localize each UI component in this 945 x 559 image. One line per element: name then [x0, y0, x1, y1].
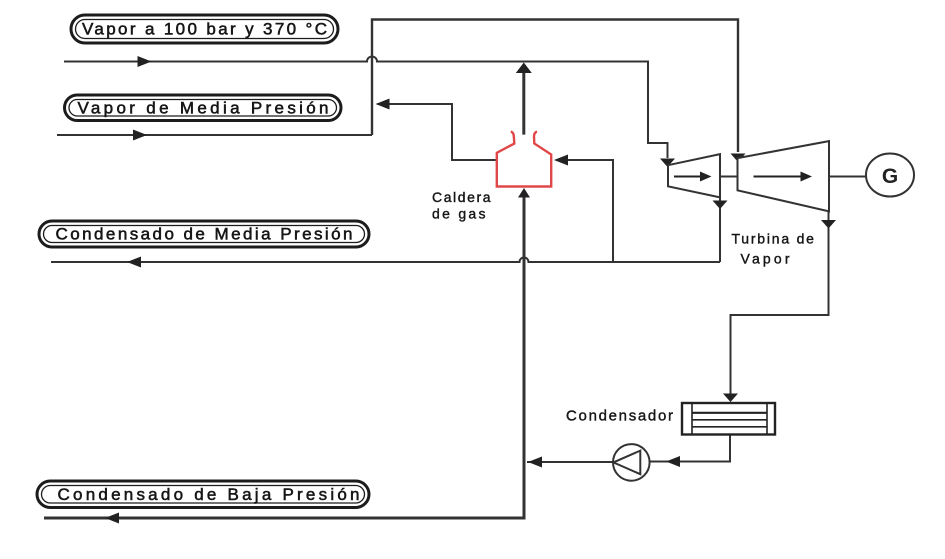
big turbine — [738, 141, 830, 211]
arrow inside small turbine — [674, 172, 712, 182]
wire F1: 100-bar steam line with hop over vertical riser — [64, 57, 668, 159]
arrow into small turbine inlet pointing down — [660, 159, 675, 168]
generator G — [866, 154, 914, 197]
text Caldera de gas — [432, 189, 491, 222]
wire big turbine exhaust to condenser — [731, 211, 829, 399]
svg-text:G: G — [882, 165, 898, 188]
wire VertD: boiler feed / condensate main vertical — [523, 197, 526, 517]
arrow into riser pointing left — [376, 99, 390, 110]
wire F2: medium pressure steam inlet — [57, 134, 372, 136]
wire F3: condensado de media presion run with hop over VertD — [51, 258, 720, 263]
arrow on F1 pointing right — [138, 56, 152, 67]
label oval L4: Condensado de Baja Presion — [37, 481, 369, 508]
wire boiler steam outlet to riser — [378, 104, 497, 160]
svg-text:Condensado de Media Presión: Condensado de Media Presión — [56, 225, 353, 244]
arrow pointing down into condenser — [723, 394, 738, 403]
svg-text:Turbina de: Turbina de — [731, 231, 814, 247]
arrow up into boiler bottom — [518, 188, 530, 198]
boiler (red) Caldera de gas — [497, 132, 551, 187]
text Condensador — [566, 408, 673, 425]
wire condenser outlet to pump — [650, 435, 730, 462]
pump — [613, 444, 650, 481]
wire boiler right-side feed from F3 — [556, 160, 613, 262]
wire pump discharge to VertD — [527, 461, 613, 463]
svg-text:Caldera: Caldera — [432, 189, 491, 205]
arrow pointing down below big turbine — [821, 220, 836, 229]
arrow into pump pointing left — [666, 456, 680, 467]
arrow on F4 pointing left — [105, 513, 119, 524]
small turbine — [668, 154, 720, 197]
arrow into boiler right side pointing left — [554, 155, 568, 166]
arrow up into F1 junction — [516, 63, 532, 74]
label oval L1: Vapor a 100 bar y 370 C — [71, 15, 338, 43]
wire small turbine exhaust down to F3 — [719, 197, 721, 262]
wire riser VertA + top run + big turbine inlet drop — [372, 20, 738, 153]
arrow into big turbine inlet pointing down — [731, 154, 746, 163]
arrow into VertD pointing left — [528, 457, 542, 468]
arrow on F3 pointing left — [127, 257, 141, 268]
wire F4: condensado de baja presion bottom run — [44, 517, 526, 520]
shaft big turbine to generator — [829, 176, 866, 178]
label oval L2: Vapor de Media Presion — [65, 95, 342, 121]
shaft between turbines — [720, 176, 738, 178]
svg-text:Condensado de Baja Presión: Condensado de Baja Presión — [58, 485, 360, 504]
arrow inside big turbine — [754, 172, 813, 182]
text Turbina de Vapor — [731, 231, 814, 267]
arrow pointing down on exhaust — [713, 201, 728, 210]
label oval L3: Condensado de Media Presion — [39, 221, 369, 247]
condenser — [682, 403, 775, 435]
chimney line from boiler neck up to F1 — [522, 73, 525, 135]
arrow on F2 pointing right — [133, 130, 147, 141]
